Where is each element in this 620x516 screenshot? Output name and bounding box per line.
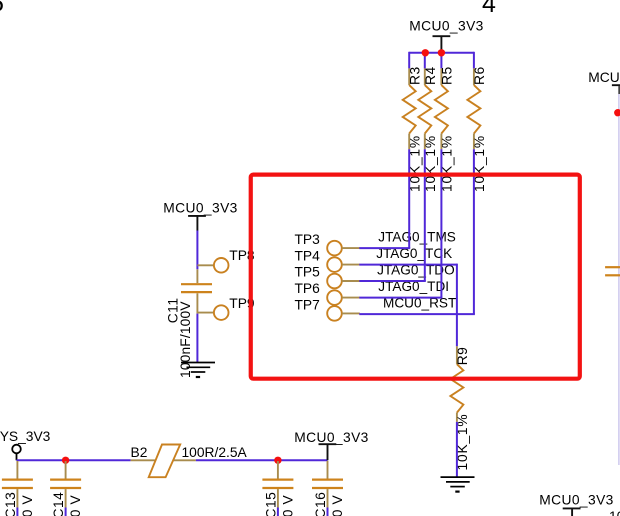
wire: JTAG0_TDO row [359,280,426,282]
junction dot [62,457,69,464]
svg-text:MCU0_3V3: MCU0_3V3 [539,493,614,508]
wire: R3 to TMS row [408,149,410,248]
wire: R5 to TDI row [440,149,442,297]
svg-text:B2: B2 [131,445,148,460]
TP6 pin stub [342,297,360,299]
wire: C11 to ground [196,314,198,362]
TP6 pad circle [327,290,342,305]
power symbol MCU0_3V3 (bottom middle) [294,430,369,460]
junction dot (right edge) [614,109,620,116]
capacitor C14 [50,461,83,516]
TP4 pad circle [327,257,342,272]
svg-text:C15: C15 [263,492,278,516]
TP9 pad circle [214,305,229,320]
svg-text:R3: R3 [408,66,423,85]
svg-text:C13: C13 [3,492,18,516]
wire: R4 to TDO row [424,149,426,281]
wire: MCU0_RST row [359,313,475,315]
wire: R5 top drop [440,53,442,69]
wire: power to C11 [196,231,198,270]
wire: bottom rail right [196,459,328,461]
wire: top horizontal rail [409,52,474,54]
svg-text:4: 4 [482,0,496,18]
wire: JTAG0_TMS row [359,247,410,249]
TP9 pin stub [197,312,214,314]
wire: right edge power stem [618,86,620,94]
svg-text:100nF/100V: 100nF/100V [178,301,193,378]
svg-text:C14: C14 [51,492,66,516]
capacitor (right edge, partial) [605,267,620,275]
wire: JTAG0_TDI row [359,297,442,299]
svg-text:10: 10 [609,509,620,516]
resistor R9 [450,346,470,470]
wire: R6 top drop [473,52,475,69]
ground (below R9) [441,477,475,492]
svg-text:TP4: TP4 [295,248,321,263]
power symbol MCU0_3V3 (left) [163,200,238,230]
port SYS_3V3 [0,429,51,460]
TP5 pin stub [342,280,360,282]
svg-text:C16: C16 [313,492,328,516]
red highlight box [251,175,580,379]
wire: R4 top drop [424,53,426,69]
wire: R3 top drop [408,52,410,69]
capacitor C11 [165,269,212,378]
TP7 pad circle [327,306,342,321]
TP7 pin stub [342,312,360,314]
svg-text:MCU0_3V3: MCU0_3V3 [588,70,620,85]
svg-text:100R/2.5A: 100R/2.5A [182,445,248,460]
wire: R6 to RST row [473,149,475,314]
svg-text:MCU0_3V3: MCU0_3V3 [409,19,484,34]
wire: bottom rail left [17,459,131,461]
TP3 pin stub [342,247,360,249]
wire: right edge vertical (faint) [618,94,620,465]
svg-text:SYS_3V3: SYS_3V3 [0,429,51,444]
TP8 pad circle [214,258,229,273]
svg-text:R5: R5 [440,66,455,85]
svg-text:TP3: TP3 [295,232,321,247]
svg-text:0V: 0V [280,490,295,516]
resistor R4 [418,66,438,192]
svg-text:MCU0_3V3: MCU0_3V3 [294,430,369,445]
svg-text:5: 5 [0,0,4,18]
svg-text:0V: 0V [330,490,345,516]
wire: R9 to ground [456,422,458,477]
ferrite bead B2 [131,445,248,478]
resistor R5 [435,66,455,192]
TP4 pin stub [342,264,360,266]
svg-text:MCU0_3V3: MCU0_3V3 [163,200,238,215]
power symbol MCU0_3V3 (bottom right) [539,493,614,516]
TP5 pad circle [327,274,342,289]
resistor R6 [467,66,487,192]
svg-text:TP7: TP7 [295,298,320,313]
capacitor C16 [312,461,345,516]
TP8 pin stub [197,264,214,266]
capacitor C15 [262,461,295,516]
junction dot [422,49,429,56]
svg-text:R9: R9 [455,347,470,366]
svg-text:R6: R6 [472,66,487,85]
svg-text:JTAG0_TMS: JTAG0_TMS [378,230,456,245]
wire: TCK to R9 drop [456,264,458,347]
TP3 pad circle [327,241,342,256]
ground (below C11) [181,363,215,378]
wire: JTAG0_TCK row [359,264,457,266]
resistor R3 [403,66,423,192]
svg-text:0V: 0V [68,490,83,516]
junction dot [274,457,281,464]
capacitor C13 [2,461,35,516]
junction dot [438,49,445,56]
svg-text:R4: R4 [423,66,438,85]
svg-text:TP5: TP5 [295,265,321,280]
svg-text:TP6: TP6 [295,281,321,296]
power symbol MCU0_3V3 (top) [409,19,484,53]
power symbol MCU0_3V3 (right edge, partial) [588,70,620,85]
svg-text:0V: 0V [20,490,35,516]
